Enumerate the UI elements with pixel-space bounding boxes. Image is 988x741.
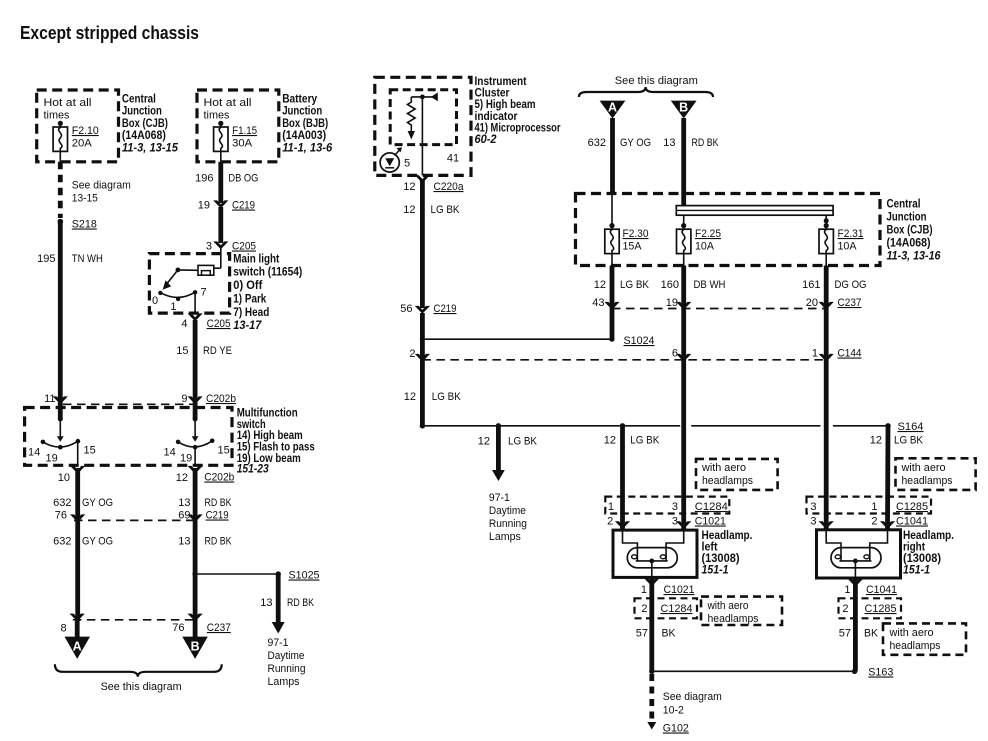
connector C205 pin 3 bbox=[206, 241, 256, 253]
svg-text:LG BK: LG BK bbox=[894, 435, 924, 447]
svg-text:41: 41 bbox=[447, 153, 459, 165]
svg-text:15: 15 bbox=[84, 445, 96, 457]
svg-text:Junction: Junction bbox=[887, 212, 927, 224]
svg-text:632: 632 bbox=[53, 536, 71, 548]
svg-text:LG BK: LG BK bbox=[508, 436, 538, 448]
connector C1021 pins 2/3 (left headlamp) bbox=[607, 516, 726, 530]
svg-text:See diagram: See diagram bbox=[72, 180, 131, 192]
svg-text:3: 3 bbox=[672, 501, 678, 513]
node A (bottom) bbox=[65, 621, 91, 659]
with aero headlamps note (right lower) bbox=[883, 623, 966, 654]
svg-text:BK: BK bbox=[864, 628, 879, 640]
svg-text:12: 12 bbox=[594, 279, 606, 291]
svg-text:5: 5 bbox=[404, 158, 410, 170]
svg-text:14) High beam: 14) High beam bbox=[237, 430, 303, 442]
svg-text:Instrument: Instrument bbox=[475, 76, 527, 88]
ground G102 bbox=[663, 723, 689, 735]
svg-text:19: 19 bbox=[198, 200, 210, 212]
connector C219 pin 19 bbox=[198, 200, 255, 212]
svg-text:2: 2 bbox=[607, 516, 613, 528]
svg-text:(14A003): (14A003) bbox=[282, 130, 326, 142]
svg-text:Cluster: Cluster bbox=[475, 88, 510, 100]
wire 12 LG BK to daytime running lamps (middle) bbox=[478, 426, 538, 543]
svg-text:3: 3 bbox=[206, 241, 212, 253]
svg-text:Multifunction: Multifunction bbox=[237, 408, 298, 420]
headlamp left (13008) bbox=[613, 530, 753, 577]
svg-text:10A: 10A bbox=[695, 241, 715, 253]
svg-text:13: 13 bbox=[260, 597, 272, 609]
splice S218 bbox=[58, 219, 97, 231]
headlamp right bulb bbox=[826, 530, 887, 578]
svg-text:B: B bbox=[191, 639, 200, 653]
node B (top) bbox=[671, 101, 697, 119]
svg-text:BK: BK bbox=[662, 628, 677, 640]
connector C237 pins 8/76 bbox=[60, 614, 230, 635]
instrument cluster box bbox=[375, 76, 561, 175]
svg-text:12: 12 bbox=[404, 391, 416, 403]
svg-text:1: 1 bbox=[812, 348, 818, 360]
wire 15 RD YE bbox=[176, 320, 232, 419]
svg-text:151-1: 151-1 bbox=[702, 565, 729, 577]
svg-text:2: 2 bbox=[641, 603, 647, 615]
svg-text:14: 14 bbox=[164, 447, 176, 459]
splice S164 distribution wire bbox=[420, 421, 924, 433]
svg-text:60-2: 60-2 bbox=[475, 134, 498, 146]
svg-text:headlamps: headlamps bbox=[890, 640, 941, 652]
svg-text:LG BK: LG BK bbox=[630, 435, 660, 447]
svg-text:9: 9 bbox=[181, 393, 187, 405]
svg-text:13: 13 bbox=[178, 497, 190, 509]
wire 12 LG BK (from F2.30) bbox=[594, 266, 650, 340]
svg-text:S218: S218 bbox=[72, 219, 97, 231]
svg-text:Hot at all: Hot at all bbox=[44, 97, 92, 109]
svg-text:C1285: C1285 bbox=[865, 603, 897, 615]
svg-text:Running: Running bbox=[489, 518, 527, 530]
svg-text:S1025: S1025 bbox=[289, 570, 320, 582]
svg-text:B: B bbox=[679, 101, 688, 115]
svg-text:switch (11654): switch (11654) bbox=[233, 267, 302, 279]
connector C1284 pins 1/3 (left headlamp) bbox=[605, 497, 729, 514]
svg-text:97-1: 97-1 bbox=[268, 637, 289, 649]
svg-text:196: 196 bbox=[195, 173, 213, 185]
connector C1285 pins 3/1 (right headlamp) bbox=[807, 497, 932, 514]
svg-text:10-2: 10-2 bbox=[663, 705, 684, 717]
svg-text:43: 43 bbox=[592, 297, 604, 309]
svg-text:1: 1 bbox=[844, 584, 850, 596]
svg-text:20A: 20A bbox=[72, 138, 93, 150]
svg-text:RD BK: RD BK bbox=[205, 536, 233, 548]
wire cluster internal bbox=[421, 97, 423, 175]
wire 195 TN WH bbox=[37, 222, 103, 420]
multifunction switch box bbox=[25, 408, 315, 476]
svg-text:See this diagram: See this diagram bbox=[101, 681, 182, 693]
svg-text:headlamps: headlamps bbox=[708, 613, 759, 625]
with aero headlamps note (left lower) bbox=[701, 597, 782, 625]
svg-text:C219: C219 bbox=[206, 510, 229, 522]
svg-text:11: 11 bbox=[44, 393, 55, 405]
svg-text:20: 20 bbox=[806, 297, 818, 309]
svg-text:8: 8 bbox=[60, 623, 66, 635]
node B (bottom) bbox=[182, 621, 208, 659]
svg-text:F2.30: F2.30 bbox=[623, 228, 649, 240]
svg-text:S1024: S1024 bbox=[624, 335, 655, 347]
wire 12 LG BK to right headlamp bbox=[870, 426, 924, 530]
wire 160 DB WH bbox=[661, 266, 726, 531]
svg-text:Main light: Main light bbox=[233, 254, 279, 266]
wire 632 GY OG (right) bbox=[588, 118, 651, 194]
svg-text:GY OG: GY OG bbox=[82, 536, 113, 548]
fuse F2.30 15A bbox=[605, 223, 649, 266]
wire A into fuse F2.30 bbox=[611, 194, 613, 227]
svg-text:2: 2 bbox=[842, 603, 848, 615]
svg-text:632: 632 bbox=[588, 137, 606, 149]
connector C237 pins 43/19/20 bbox=[592, 297, 861, 310]
svg-text:C1021: C1021 bbox=[664, 584, 695, 596]
svg-text:15: 15 bbox=[176, 345, 188, 357]
svg-text:11-3, 13-15: 11-3, 13-15 bbox=[122, 142, 179, 154]
svg-text:C1284: C1284 bbox=[661, 603, 693, 615]
wire dashed to ground bbox=[647, 674, 722, 730]
svg-text:S163: S163 bbox=[868, 667, 893, 679]
svg-text:A: A bbox=[608, 101, 617, 115]
wire 161 DG OG bbox=[802, 266, 866, 530]
resistor (cluster) bbox=[408, 97, 416, 140]
svg-text:Headlamp.: Headlamp. bbox=[903, 530, 954, 542]
svg-text:C237: C237 bbox=[207, 622, 231, 634]
svg-text:0: 0 bbox=[152, 295, 158, 307]
fuse F2.10 20A bbox=[53, 121, 99, 162]
battery junction box BJB bbox=[197, 90, 333, 162]
svg-text:C202b: C202b bbox=[206, 393, 236, 405]
svg-text:1: 1 bbox=[641, 584, 647, 596]
svg-text:13-15: 13-15 bbox=[72, 193, 98, 205]
svg-text:15) Flash to pass: 15) Flash to pass bbox=[237, 442, 315, 454]
with aero headlamps note (left upper) bbox=[696, 459, 778, 490]
wire 13 RD BK (upper) bbox=[178, 468, 232, 621]
wire LG BK to splice bbox=[420, 313, 425, 426]
svg-text:5) High beam: 5) High beam bbox=[475, 99, 536, 111]
connector C202b pins 11/9 bbox=[63, 393, 236, 405]
wire label 632 GY OG (lower) bbox=[53, 536, 113, 548]
svg-text:times: times bbox=[44, 110, 70, 122]
multifunction switch left (high/low beam) bbox=[28, 417, 96, 466]
svg-text:right: right bbox=[903, 542, 925, 554]
svg-text:12: 12 bbox=[176, 472, 188, 484]
svg-text:15: 15 bbox=[218, 445, 230, 457]
svg-text:7: 7 bbox=[201, 287, 207, 299]
svg-text:Running: Running bbox=[268, 663, 306, 675]
svg-text:151-23: 151-23 bbox=[237, 464, 270, 476]
svg-text:Daytime: Daytime bbox=[268, 650, 305, 662]
connector C202b pins 10/12 bbox=[58, 466, 235, 484]
svg-text:12: 12 bbox=[604, 435, 616, 447]
svg-text:C1021: C1021 bbox=[695, 516, 726, 528]
svg-text:C202b: C202b bbox=[204, 472, 234, 484]
svg-text:DB WH: DB WH bbox=[694, 279, 726, 291]
svg-text:160: 160 bbox=[661, 279, 679, 291]
wire label 13 RD BK (lower) bbox=[178, 536, 232, 548]
svg-text:57: 57 bbox=[636, 628, 648, 640]
splice S1025 bbox=[192, 570, 319, 582]
svg-text:(14A068): (14A068) bbox=[122, 130, 166, 142]
node microprocessor output 41 bbox=[411, 93, 459, 165]
svg-text:Daytime: Daytime bbox=[489, 505, 526, 517]
svg-text:LG BK: LG BK bbox=[431, 204, 461, 216]
svg-text:left: left bbox=[702, 542, 718, 554]
svg-text:12: 12 bbox=[403, 181, 415, 193]
svg-text:A: A bbox=[73, 639, 82, 653]
connector C1041 pin 1 (below right headlamp) bbox=[844, 579, 897, 596]
svg-text:3: 3 bbox=[810, 516, 816, 528]
wire 632 GY OG (upper) bbox=[53, 468, 113, 621]
connector C1041 pins 3/2 (right headlamp) bbox=[810, 516, 928, 530]
svg-text:(14A068): (14A068) bbox=[887, 238, 931, 250]
svg-text:13: 13 bbox=[178, 536, 190, 548]
svg-text:97-1: 97-1 bbox=[489, 492, 510, 504]
fuse F2.31 10A bbox=[819, 223, 864, 266]
svg-text:with aero: with aero bbox=[901, 462, 946, 474]
svg-text:161: 161 bbox=[802, 279, 820, 291]
svg-text:LG BK: LG BK bbox=[620, 279, 650, 291]
svg-text:Junction: Junction bbox=[122, 106, 162, 118]
wire 12 LG BK (cluster) bbox=[403, 180, 460, 308]
svg-text:12: 12 bbox=[403, 204, 415, 216]
connector C1284 pin 2 (below left headlamp) bbox=[635, 598, 698, 618]
svg-text:13: 13 bbox=[663, 137, 675, 149]
high beam indicator lamp 5 bbox=[380, 147, 410, 172]
svg-text:C1284: C1284 bbox=[695, 501, 728, 513]
svg-text:(13008): (13008) bbox=[702, 553, 740, 565]
svg-text:Central: Central bbox=[887, 199, 921, 211]
svg-text:3: 3 bbox=[810, 501, 816, 513]
splice S163 bbox=[649, 667, 893, 679]
svg-text:12: 12 bbox=[870, 435, 882, 447]
fuse F1.15 30A bbox=[214, 121, 258, 162]
svg-text:with aero: with aero bbox=[701, 462, 746, 474]
connector C1285 pin 2 (below right headlamp) bbox=[839, 598, 902, 618]
svg-text:headlamps: headlamps bbox=[702, 475, 753, 487]
connector C219 pin 56 bbox=[400, 303, 456, 315]
svg-text:RD BK: RD BK bbox=[205, 497, 233, 509]
svg-text:C144: C144 bbox=[838, 348, 862, 360]
fuse F2.25 10A bbox=[677, 223, 722, 266]
svg-text:Junction: Junction bbox=[282, 106, 322, 118]
svg-text:C219: C219 bbox=[434, 303, 457, 315]
svg-text:(13008): (13008) bbox=[903, 553, 941, 565]
svg-text:DG OG: DG OG bbox=[835, 279, 867, 291]
multifunction switch right (flash to pass) bbox=[164, 417, 230, 466]
svg-text:C219: C219 bbox=[232, 200, 255, 212]
svg-text:times: times bbox=[204, 110, 230, 122]
svg-text:C205: C205 bbox=[207, 318, 231, 330]
connector C219 pins 76/69 bbox=[55, 510, 229, 523]
wire 57 BK (left) bbox=[636, 578, 676, 671]
svg-text:195: 195 bbox=[37, 253, 55, 265]
svg-text:C1041: C1041 bbox=[866, 584, 897, 596]
wire 57 BK (right) bbox=[839, 579, 879, 672]
svg-text:headlamps: headlamps bbox=[902, 475, 953, 487]
svg-text:Box (CJB): Box (CJB) bbox=[887, 225, 933, 237]
svg-text:F1.15: F1.15 bbox=[232, 125, 257, 137]
svg-text:Hot at all: Hot at all bbox=[204, 97, 252, 109]
title text bbox=[20, 23, 199, 43]
central junction box CJB (right) bbox=[576, 194, 942, 266]
headlamp right (13008) bbox=[817, 530, 955, 578]
wire 196 DB OG bbox=[195, 162, 258, 203]
svg-text:Battery: Battery bbox=[282, 94, 318, 106]
svg-text:S164: S164 bbox=[898, 421, 924, 433]
svg-text:See diagram: See diagram bbox=[663, 691, 722, 703]
svg-text:2: 2 bbox=[409, 348, 415, 360]
svg-text:19: 19 bbox=[666, 297, 678, 309]
svg-text:DB OG: DB OG bbox=[228, 173, 258, 185]
svg-text:76: 76 bbox=[172, 622, 184, 634]
svg-text:7) Head: 7) Head bbox=[233, 307, 269, 319]
wire 13 RD BK to daytime running lamps bbox=[260, 574, 314, 688]
svg-text:C205: C205 bbox=[232, 241, 256, 253]
node A (top) bbox=[600, 101, 626, 119]
svg-text:Box (CJB): Box (CJB) bbox=[122, 118, 168, 130]
connector C220a pin 12 bbox=[403, 175, 464, 193]
svg-text:30A: 30A bbox=[232, 138, 253, 150]
svg-text:F2.10: F2.10 bbox=[72, 125, 99, 137]
svg-text:Lamps: Lamps bbox=[489, 531, 521, 543]
headlamp left bulb bbox=[623, 530, 684, 577]
svg-text:RD BK: RD BK bbox=[287, 597, 315, 609]
connector C144 pin 2 bbox=[409, 348, 430, 362]
svg-text:4: 4 bbox=[181, 318, 187, 330]
svg-text:1: 1 bbox=[170, 301, 176, 313]
svg-text:19: 19 bbox=[46, 453, 58, 465]
connector C144 pins 6/1 bbox=[422, 348, 861, 362]
svg-text:Lamps: Lamps bbox=[268, 676, 300, 688]
connector pin 11 (C202b) bbox=[44, 393, 68, 405]
svg-text:41) Microprocessor: 41) Microprocessor bbox=[475, 122, 561, 134]
svg-text:indicator: indicator bbox=[475, 111, 518, 123]
svg-text:2: 2 bbox=[871, 516, 877, 528]
svg-text:Box (BJB): Box (BJB) bbox=[282, 118, 328, 130]
svg-text:15A: 15A bbox=[623, 241, 643, 253]
svg-text:1: 1 bbox=[871, 501, 877, 513]
svg-text:with aero: with aero bbox=[707, 600, 749, 612]
svg-text:14: 14 bbox=[28, 447, 40, 459]
svg-text:632: 632 bbox=[53, 497, 71, 509]
main light switch contacts bbox=[152, 248, 221, 313]
svg-text:F2.31: F2.31 bbox=[838, 228, 864, 240]
wire bus bar to F2.25 bbox=[683, 215, 685, 226]
splice S1024 bbox=[420, 335, 655, 347]
svg-text:11-1, 13-6: 11-1, 13-6 bbox=[282, 142, 333, 154]
connector C1021 pin 1 (below left headlamp) bbox=[641, 578, 695, 596]
svg-text:Central: Central bbox=[122, 94, 156, 106]
wire bus bar to F2.31 bbox=[824, 215, 829, 226]
svg-text:6: 6 bbox=[672, 348, 678, 360]
wire dashed see-diagram 13-15 bbox=[60, 162, 131, 218]
svg-text:TN WH: TN WH bbox=[72, 253, 103, 265]
svg-text:11-3, 13-16: 11-3, 13-16 bbox=[887, 251, 942, 263]
svg-text:F2.25: F2.25 bbox=[695, 228, 721, 240]
svg-text:1) Park: 1) Park bbox=[233, 293, 267, 305]
svg-text:LG BK: LG BK bbox=[432, 391, 462, 403]
svg-text:76: 76 bbox=[55, 510, 67, 522]
svg-text:10: 10 bbox=[58, 472, 70, 484]
svg-text:13-17: 13-17 bbox=[233, 320, 262, 332]
svg-text:19: 19 bbox=[180, 453, 192, 465]
connector C205 pin 4 bbox=[181, 313, 230, 330]
central junction box CJB (left) bbox=[37, 90, 179, 162]
svg-text:RD BK: RD BK bbox=[692, 137, 720, 149]
wire label 12 LG BK (below C144) bbox=[404, 391, 462, 403]
svg-text:56: 56 bbox=[400, 303, 412, 315]
main light switch box (11654) bbox=[149, 254, 302, 333]
svg-text:RD YE: RD YE bbox=[203, 345, 232, 357]
svg-text:with aero: with aero bbox=[889, 627, 934, 639]
brace see this diagram (top right) bbox=[579, 75, 713, 97]
svg-text:Headlamp.: Headlamp. bbox=[702, 530, 753, 542]
svg-text:See this diagram: See this diagram bbox=[615, 75, 698, 87]
svg-text:0) Off: 0) Off bbox=[233, 280, 262, 292]
svg-text:151-1: 151-1 bbox=[903, 565, 930, 577]
svg-text:C220a: C220a bbox=[434, 181, 465, 193]
bus bar bbox=[676, 206, 833, 216]
svg-text:C237: C237 bbox=[838, 297, 862, 309]
svg-text:GY OG: GY OG bbox=[82, 497, 113, 509]
brace see this diagram (bottom left) bbox=[55, 664, 222, 693]
svg-text:57: 57 bbox=[839, 628, 851, 640]
svg-text:12: 12 bbox=[478, 436, 490, 448]
svg-text:1: 1 bbox=[608, 501, 614, 513]
svg-text:GY OG: GY OG bbox=[620, 137, 651, 149]
wire 13 RD BK (right) bbox=[663, 118, 719, 206]
with aero headlamps note (right upper) bbox=[896, 458, 976, 490]
wire 12 LG BK to left headlamp bbox=[604, 426, 660, 530]
svg-text:C1041: C1041 bbox=[896, 516, 928, 528]
svg-text:10A: 10A bbox=[838, 241, 858, 253]
wire DB OG to C205 bbox=[218, 207, 223, 243]
svg-text:G102: G102 bbox=[663, 723, 689, 735]
svg-text:Except stripped chassis: Except stripped chassis bbox=[20, 23, 199, 43]
svg-text:C1285: C1285 bbox=[896, 501, 928, 513]
svg-text:69: 69 bbox=[178, 510, 190, 522]
